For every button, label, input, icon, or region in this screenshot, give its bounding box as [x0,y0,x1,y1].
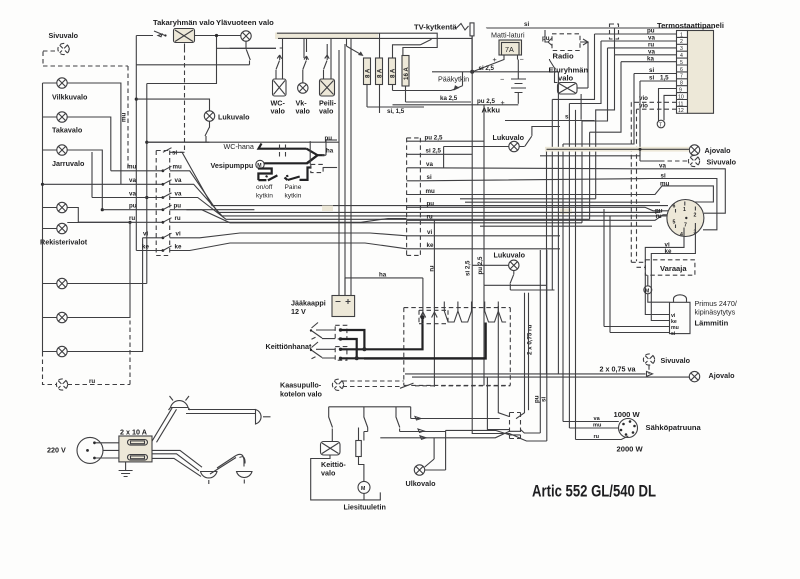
wire kaasupullo dashed upper to heater box [343,380,404,382]
svg-text:Ajovalo: Ajovalo [705,146,732,155]
svg-text:si 2,5: si 2,5 [465,260,472,276]
wire dashed stub takaryhmä box bottom [184,43,186,49]
wire lamp4 right to x130 vertical [67,222,130,317]
switch row 2 [364,417,368,428]
wire akku plus down [517,93,519,104]
svg-text:Sivuvalo: Sivuvalo [707,158,737,167]
wire M down to heater [648,294,670,302]
lamp left 4 [57,312,67,322]
lamp sivuvalo (dashed) [58,43,69,54]
svg-text:M: M [361,486,365,492]
svg-text:1000 W: 1000 W [614,410,641,419]
wire Vk up [306,39,308,52]
lamp rekisteri 2 [57,223,67,233]
wire takaryhmä left to x136.3 [136,35,153,37]
J2 si wire right long [420,179,717,230]
wire pu/si verticals bottom [540,250,547,441]
wire pump connector up to y141 [309,141,311,164]
switch on/off (thick) [258,175,277,180]
bus va2 row fan [170,198,460,220]
wire plug to box (3) [96,443,119,458]
J1 row switches [163,148,172,251]
svg-text:Radio: Radio [553,52,574,61]
svg-text:Ylävuoteen valo: Ylävuoteen valo [216,18,274,27]
wire si2,5 lower run [472,265,520,438]
junction dot tap2 row1 [339,348,342,351]
wire 2x0,75 va pair horizontals [405,374,689,377]
svg-text:si: si [172,150,177,157]
wire tap1 row2 out (thick) [341,339,357,358]
wire kaasupullo dashed continue [415,385,510,387]
wire si 1,5 line [367,106,424,108]
svg-text:Vilkkuvalo: Vilkkuvalo [52,93,88,102]
svg-text:7: 7 [680,74,683,80]
highlight band [275,33,378,40]
svg-text:Pääkytkin: Pääkytkin [438,75,469,84]
wire pin12 vio dashed [637,108,677,110]
lamp sivuvalo bottom dashed [643,354,654,365]
wire stair pin7 [563,74,634,145]
wire three lines to heater connector [380,419,520,438]
wire si drop from tv area [486,27,488,30]
svg-text:Lukuvalo: Lukuvalo [493,133,525,142]
wire pu2,5 bottom bend [484,284,546,286]
fuse F3 8A [389,58,397,85]
svg-text:valo: valo [319,107,334,116]
lamp keittiövalo (box X) [321,442,341,456]
wire stair pin8 [540,81,640,156]
wire lämmitin feed verticals [604,209,610,333]
wire vertical x146.8 (83.5 to lamp3) [146,84,148,284]
svg-text:mu: mu [660,181,670,188]
svg-text:va: va [129,190,136,197]
svg-text:Sähköpatruuna: Sähköpatruuna [646,423,702,432]
wire antenna vertical to si2,5 [471,36,473,72]
wire fuse3 top up [393,39,432,58]
svg-text:si 2,5: si 2,5 [426,148,442,155]
connector dashed (gas valve) [419,310,448,323]
svg-text:Paine: Paine [285,184,302,191]
outlet 1 (top) [169,396,191,410]
lamp ajovalo top [689,145,699,155]
motor M vesipumppu [256,160,264,169]
wire vio dashed into varaaja [631,262,645,267]
fuse box 2x10A [119,436,152,462]
wire tap1 row1 out (thick) to riser [341,330,365,349]
svg-text:6: 6 [680,67,683,73]
lamp Peili-valo (box X) [320,79,335,96]
wire charger plus diagonal to junction [473,56,505,72]
svg-text:2: 2 [680,39,683,45]
svg-text:10: 10 [678,94,684,100]
connector dashed tap2 [335,347,347,361]
wire switch2 to resistor second lead [364,428,368,441]
svg-text:Liesituuletin: Liesituuletin [344,503,386,512]
highlight band ajovalo [545,147,689,152]
lamp takaryhmän valo (box X) [174,29,195,43]
svg-text:Sivuvalo: Sivuvalo [661,356,691,365]
switch below lukuvalo [205,121,210,142]
wire WC feed left [230,47,276,50]
wire ulkovalo connections [425,430,446,470]
svg-text:va: va [129,177,136,184]
wire dashed mu vertical (node mu) [127,66,129,171]
wire box out to outlets [152,407,202,476]
svg-text:vi: vi [176,231,181,238]
svg-text:vi: vi [427,229,432,236]
svg-text:vi: vi [143,231,148,238]
wire ladder v7 x582 [581,121,583,223]
wire pin5 ka [621,61,677,63]
svg-text:12 V: 12 V [291,307,306,316]
tap switch 2 [312,342,319,348]
svg-text:Takavalo: Takavalo [52,126,83,135]
wire pin8 si 1,5 [640,80,677,82]
svg-text:si, 1,5: si, 1,5 [387,108,405,115]
wire left rail [42,83,44,352]
svg-text:si: si [427,174,432,181]
junction dot x216.5 top [215,34,218,37]
outlet 3 [201,472,218,485]
switch lukuvalo RB [510,271,555,291]
svg-text:Termostaattipaneli: Termostaattipaneli [657,21,724,30]
svg-text:si 2,5: si 2,5 [479,65,495,72]
svg-text:si: si [671,331,676,337]
wire top bus y32.6 [277,33,437,55]
junction dot lamp4 vert at ru row [128,221,131,224]
lamp bottom dashed [56,379,67,390]
wire stair pin5 [590,62,621,133]
wire sivuvalo solid stub [640,149,660,161]
junction arrow sivuvalo drop [647,371,653,376]
lamp Lukuvalo right-bottom [509,260,519,270]
switch eturyhmä left [550,59,558,83]
svg-text:on/off: on/off [256,184,273,191]
outlet 2 (right) [256,410,271,425]
J2 pu wire right [420,207,668,211]
tank wall left [498,306,509,417]
svg-text:va: va [175,177,182,184]
svg-text:Rekisterivalot: Rekisterivalot [40,238,88,247]
lamp rekisteri 1 [57,202,67,212]
rewire bundle over bands [186,210,660,213]
lamp Jarruvalo [57,145,67,155]
wire T connections [659,119,665,122]
svg-text:va: va [426,161,433,168]
wire takaryhmä box to ylävuoteen lamp [195,35,241,37]
J1 bus rows left [43,171,163,251]
wire outlet1 to outlet2 [186,410,255,414]
lamp left 5 [57,346,67,356]
heater dome [674,295,687,303]
wire pu line from hana connector [326,139,337,141]
wire radio vertical [587,42,589,88]
svg-text:1: 1 [683,207,686,213]
wire si top right [487,27,714,29]
refrigerator Jääkaappi box [332,296,355,317]
water heater Varaaja dashed box [645,260,695,275]
J2 pu2,5 wire right then down x484 [420,105,484,285]
svg-text:Artic 552 GL/540 DL: Artic 552 GL/540 DL [532,483,656,501]
svg-text:valo: valo [321,469,336,478]
svg-text:8 A: 8 A [377,68,384,78]
arrow ticks into heater [420,312,437,318]
svg-text:Lukuvalo: Lukuvalo [494,251,526,260]
junction dot tap1 row2 [339,337,342,340]
svg-text:ke: ke [427,242,434,249]
svg-text:si: si [524,21,529,28]
wire paine to connector (thick) [300,168,312,180]
wire pu bend to heater connector [521,430,547,442]
svg-text:kytkin: kytkin [256,193,273,200]
svg-text:pu 2,5: pu 2,5 [425,135,443,142]
svg-text:Kaasupullo-: Kaasupullo- [280,381,322,390]
wire taka right down to mu row [67,117,111,171]
junction dot tap join 1 [362,347,366,351]
wire kaasupullo dashed lower [343,386,401,388]
wire mu to cartridge [569,427,618,429]
WC-hana faucet symbol [259,144,318,164]
wire tap1 rows to connector [316,330,335,339]
wire ha jääkaappi horizontal [345,278,423,317]
J1 row dots [162,169,165,172]
charger Matti-laturi box 7A [499,40,522,55]
svg-text:Ajovalo: Ajovalo [709,371,736,380]
connector J1 dashed box [156,151,170,256]
arrows on lines [415,417,426,440]
ground symbol [119,462,133,477]
svg-text:6: 6 [673,204,676,210]
wire x216.5 vertical [147,36,217,84]
wire radio pu stub + switch [545,30,552,46]
svg-text:5: 5 [680,60,683,66]
wire pin2 va [601,40,677,42]
junction dot tap join 2 [355,356,359,360]
svg-text:ke: ke [175,243,182,250]
svg-text:kotelon valo: kotelon valo [280,390,323,399]
wire charger minus down [517,56,520,80]
connector pins [673,202,697,239]
wire pu 2,5 akku line [393,104,519,106]
switch lukuvalo RT [519,126,560,146]
wire Peili up [327,38,331,79]
heating element W (thick) [444,302,506,323]
svg-text:Lämmitin: Lämmitin [695,319,729,328]
wire fuses bottoms down [367,85,406,114]
wire dashed long vertical x184.5 [184,48,186,152]
svg-text:2: 2 [694,213,697,219]
wire y141 long horizontal [147,141,339,143]
wire eturyhmä lamp down to si line [580,94,582,120]
switch paine (thick) [285,175,300,180]
svg-text:Lukuvalo: Lukuvalo [218,113,250,122]
TV zigzag [456,24,469,31]
lamp Vk-valo [298,83,308,93]
wire eturyhmä lamp right up [577,87,588,89]
switch pääkytkin [393,72,463,91]
svg-text:pu: pu [129,203,137,210]
svg-text:220 V: 220 V [47,446,66,455]
junction dot tap2 row2 [339,357,342,360]
switch kaasupullo [400,383,414,388]
heating cartridge circle [619,419,638,438]
wire ladder v3 x558.4 [557,72,559,374]
svg-text:WC-hana: WC-hana [224,142,254,151]
svg-text:pu: pu [427,201,435,208]
wire lukuvalo RT left [444,147,509,168]
connector dashed small (heater bottom) [510,413,521,439]
svg-text:TV-kytkentä: TV-kytkentä [414,23,457,32]
wire WC up [280,39,283,80]
wire tap2 rows to connector [316,349,335,358]
lamp left 3 [57,278,67,288]
trailer connector circle [667,200,704,237]
wire pin10 down to T [664,95,677,120]
wire lukuvalo RB left from si2,5 [472,264,508,266]
svg-text:pu 2,5: pu 2,5 [477,98,495,105]
connector dashed small (hana) [280,145,286,159]
svg-text:valo: valo [558,74,574,83]
wire switch arrow [158,34,162,37]
svg-text:2000 W: 2000 W [617,445,644,454]
wire sivuvalo bottom dashed drop [648,365,650,374]
svg-text:−: − [520,55,524,64]
svg-text:2 x 0,75 ru: 2 x 0,75 ru [527,325,534,355]
svg-text:Takaryhmän valo: Takaryhmän valo [153,18,215,27]
svg-text:valo: valo [271,107,286,116]
svg-text:11: 11 [678,101,683,107]
J2 mu wire right long [420,186,713,202]
wire ylävuoteen switch [246,41,250,65]
junction dot gas valve riser [421,315,425,319]
wire pin7 si [634,73,677,75]
lamp Vilkkuvalo [57,78,67,88]
J2 ru wire right [420,215,669,221]
wire pin4 va [615,54,677,56]
tank wall right [516,293,525,419]
bus ru row straight [170,219,407,223]
wire stair pin3 [582,48,608,121]
fuse F2 8A [376,58,384,85]
dropper resistor [356,428,364,500]
svg-text:8 A: 8 A [365,68,372,78]
svg-text:ru: ru [129,215,135,222]
svg-text:+: + [501,98,505,107]
wire pin9 down to T [659,89,677,122]
wire pin1 pu [595,33,677,35]
wire x92 vertical from va2 up [91,152,93,198]
wire rekisteri loop to ru row [67,208,130,223]
wire lamp3 right to x146.8 vertical [67,283,147,285]
svg-text:ha: ha [326,148,334,155]
wire stair pin4 [596,55,615,199]
svg-text:Matti-laturi: Matti-laturi [491,31,525,40]
svg-text:1: 1 [680,32,683,38]
junction dot lukuvalo feed [135,98,138,101]
svg-text:valo: valo [296,107,311,116]
wire vi from pin4 [645,231,684,315]
wire dash-dot sivuvalo to mu vertical [43,49,128,66]
switch above Vk [303,56,309,83]
lamp kaasupullo dashed [332,379,343,390]
bus ke row fan [170,243,407,251]
wire pump lower loop (thick) [258,169,272,181]
svg-text:ru: ru [175,215,181,222]
connector small dashed top [610,24,619,39]
switch above Peili [324,55,330,79]
connector dashed tap1 [335,325,347,339]
svg-text:8 A: 8 A [390,68,397,78]
svg-text:2 x 10 A: 2 x 10 A [120,428,147,437]
wire pin11 vio dashed [631,101,676,103]
svg-text:7A: 7A [505,45,514,54]
wire ladder v1 x546.5 [546,149,548,374]
svg-text:16 A: 16 A [403,67,410,80]
bus si row fan [170,152,472,205]
junction dot va1 rail [41,183,44,186]
wire long verticals x339/345/351 from fuses to jääkaappi [339,39,351,296]
svg-text:8: 8 [680,81,683,87]
J2 vi wire right [420,235,560,237]
wire si line y120.5 [505,120,595,122]
motor M primus [644,286,652,295]
wire lukuvalo feed horizontal [136,99,209,111]
wire ru vertical x434.4 [433,220,435,386]
lamp Lukuvalo left [204,111,214,121]
wire from pump connector right [323,167,337,169]
lamp ajovalo bottom [689,371,699,381]
wire top rail [329,407,411,419]
wire ladder v2 x552.3 [551,99,553,290]
J2 va wire right long [420,168,725,213]
svg-text:ru: ru [427,214,433,221]
wire ru to cartridge [576,436,629,440]
wire radio right side to eturyhmä lamp [580,39,588,45]
switch row 3 [396,417,400,432]
wire ladder v4 x563 [562,144,564,422]
motor M liesituuletin [358,481,370,493]
svg-text:−: − [500,75,504,84]
highlight band pu row [322,206,333,212]
wire M to varaaja [647,275,649,286]
svg-text:M: M [645,288,649,294]
junction dot si2,5 [470,70,474,74]
wire vio dashed verticals down [631,102,636,262]
battery Akku plates [511,79,526,93]
svg-text:9: 9 [679,88,682,94]
svg-text:Jarruvalo: Jarruvalo [52,159,85,168]
svg-text:mu: mu [121,112,128,122]
highlight band bundle [560,209,572,215]
J2 si2,5 wire right then down x472.2 [420,72,472,265]
bus vi row fan [170,233,407,238]
wire element left drop (thick) [364,323,486,359]
wire lukuvalo return y142.2 [147,141,210,143]
svg-text:Ulkovalo: Ulkovalo [406,479,437,488]
wire ladder v8 x589.6 [589,132,591,219]
svg-text:si: si [541,397,548,402]
switch takaryhmä [154,31,165,36]
switch above WC [276,55,282,79]
svg-text:va: va [659,163,666,170]
svg-text:12: 12 [678,108,684,114]
wire top bus y39 long [278,37,472,39]
heater Lämmitin box [670,302,691,333]
right bundle horizontals [460,199,676,226]
svg-text:si: si [661,173,666,180]
svg-text:mu: mu [127,164,137,171]
wire dashed ru from bottom lamp to x130 [68,321,131,385]
